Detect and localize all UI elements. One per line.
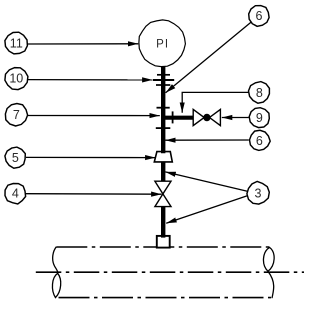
svg-text:11: 11 (10, 37, 23, 51)
svg-text:6: 6 (256, 134, 263, 148)
svg-text:8: 8 (256, 86, 263, 100)
svg-text:5: 5 (12, 151, 19, 165)
svg-text:6: 6 (256, 9, 263, 23)
svg-text:9: 9 (256, 111, 263, 125)
svg-text:3: 3 (255, 186, 262, 200)
svg-text:4: 4 (12, 187, 19, 201)
svg-text:PI: PI (156, 38, 169, 50)
svg-text:7: 7 (13, 108, 20, 122)
svg-text:10: 10 (9, 72, 23, 86)
